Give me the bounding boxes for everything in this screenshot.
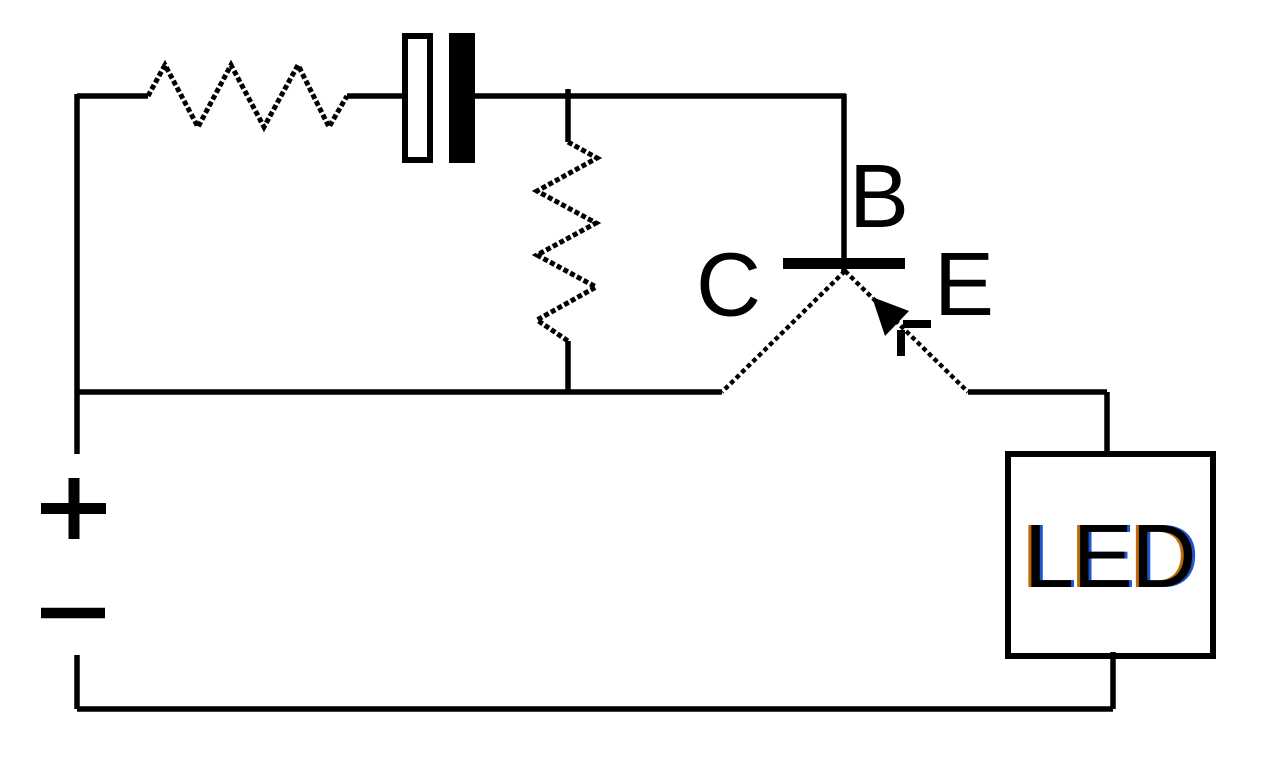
transistor Q1 base stub — [841, 269, 847, 273]
wire middle rail — [77, 389, 722, 395]
wire left vertical lower — [74, 655, 80, 709]
resistor R1 — [148, 65, 347, 127]
transistor Q1 base bar — [783, 258, 905, 269]
LED label — [1021, 507, 1198, 607]
emitter arrow head — [872, 297, 909, 336]
transistor Q1 collector diagonal — [722, 271, 845, 392]
LED box — [1008, 454, 1213, 656]
wire LED exit vertical — [1110, 652, 1116, 709]
wire left vertical upper — [74, 94, 80, 454]
svg-text:LED: LED — [1024, 507, 1195, 607]
wire base vertical — [841, 94, 847, 258]
svg-text:B: B — [849, 147, 909, 247]
wire LED entry vertical — [1104, 392, 1110, 451]
capacitor C1 positive plate (solid) — [449, 33, 475, 163]
battery plus terminal — [41, 478, 106, 539]
svg-text:C: C — [696, 236, 761, 336]
wire top-left horizontal — [77, 93, 148, 99]
battery minus terminal — [41, 608, 105, 619]
wire bottom rail — [77, 706, 1113, 712]
node junction stub at R2 top — [565, 89, 571, 96]
wire R2 to middle rail — [565, 341, 571, 392]
wire R1 to capacitor — [347, 93, 403, 99]
wire emitter to LED — [968, 389, 1107, 395]
emitter arrow whisker down — [897, 330, 905, 356]
svg-text:E: E — [934, 235, 994, 335]
capacitor C1 negative plate (hollow) — [405, 36, 430, 160]
transistor Q1 emitter diagonal — [845, 271, 968, 392]
emitter arrow whisker right — [903, 320, 931, 328]
resistor R2 — [537, 142, 597, 341]
wire capacitor to transistor base corner — [475, 93, 846, 99]
wire junction down to R2 — [565, 96, 571, 142]
